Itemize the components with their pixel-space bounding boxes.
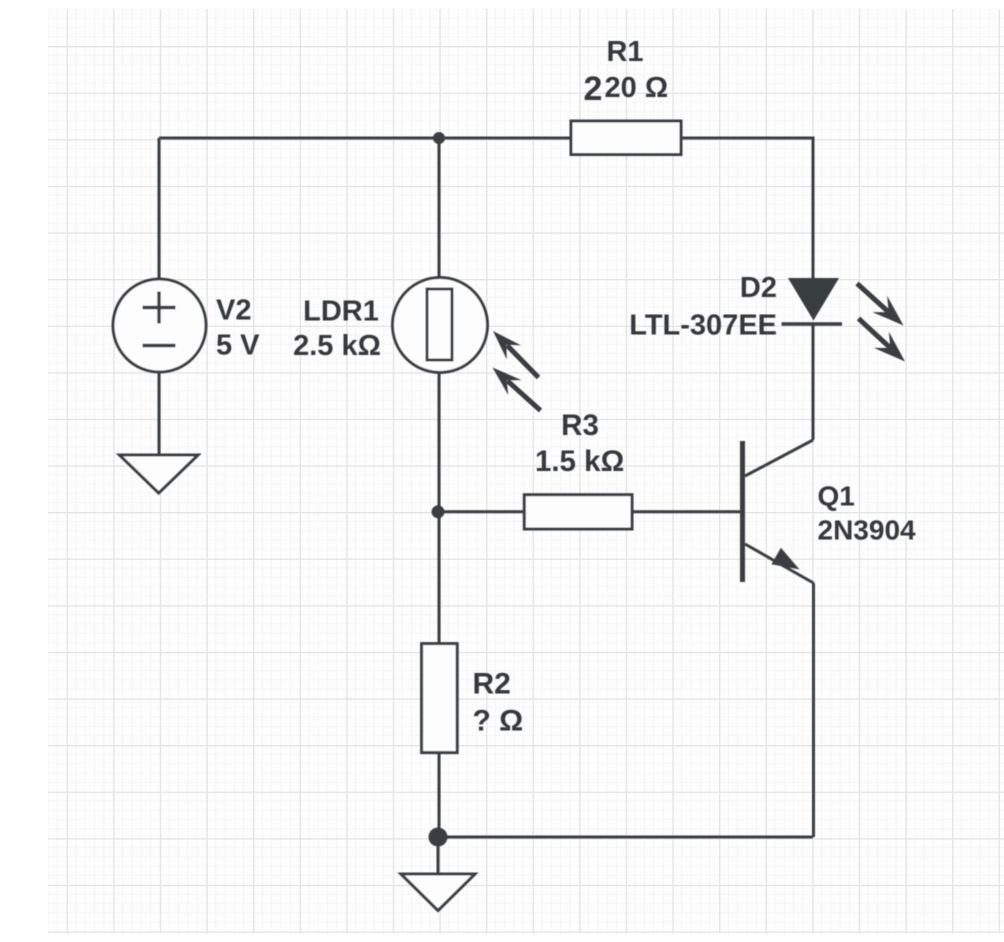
svg-text:D2: D2 — [740, 272, 777, 304]
resistor R1 — [571, 121, 681, 155]
wire: bottom rail — [438, 836, 813, 839]
photoresistor LDR1 — [393, 278, 488, 373]
wire: V2 top stem — [158, 138, 161, 279]
svg-text:1.5 kΩ: 1.5 kΩ — [535, 445, 624, 478]
label V2 5V — [216, 295, 260, 362]
LED D2 — [782, 278, 843, 324]
voltage source V2 — [113, 279, 206, 372]
svg-text:20 Ω: 20 Ω — [605, 72, 669, 104]
wire: R2 bottom to bottom node — [438, 753, 441, 830]
LDR1 light arrow upper — [493, 331, 539, 378]
svg-text:LDR1: LDR1 — [303, 296, 379, 328]
label D2 LTL-307EE — [629, 272, 777, 342]
resistor R3 — [524, 495, 632, 529]
node: top junction — [433, 132, 445, 144]
wire: V2 bottom stem to ground — [158, 372, 161, 455]
svg-text:R2: R2 — [473, 668, 511, 701]
svg-text:R3: R3 — [561, 409, 599, 442]
wire: base node to R3 — [438, 510, 524, 513]
wire: LDR top stem — [438, 138, 441, 278]
LDR1 light arrow lower — [493, 368, 541, 411]
wire: top rail right segment (R1 to right corner, down to LED) — [681, 138, 813, 278]
svg-text:2N3904: 2N3904 — [818, 514, 917, 545]
wire: Q1 emitter to bottom rail — [812, 583, 815, 837]
node: base junction — [432, 505, 445, 518]
resistor R2 — [422, 644, 458, 753]
label R3 1.5kOhm — [535, 409, 624, 478]
svg-text:LTL-307EE: LTL-307EE — [629, 310, 777, 342]
label R1 220 Ohm — [584, 36, 669, 108]
label R2 ?Ohm — [473, 668, 524, 738]
label Q1 2N3904 — [818, 481, 917, 546]
svg-text:? Ω: ? Ω — [473, 705, 524, 738]
svg-text:Q1: Q1 — [818, 481, 855, 512]
transistor Q1 — [743, 440, 814, 583]
svg-text:2: 2 — [584, 70, 603, 108]
wire: bottom node to ground — [437, 844, 440, 874]
ground (left, under V2) — [120, 455, 199, 493]
svg-text:R1: R1 — [606, 36, 643, 68]
D2 light arrow lower — [859, 319, 906, 362]
ground (bottom) — [401, 874, 475, 911]
wire: LDR bottom to R2 (through base node) — [438, 372, 441, 644]
svg-text:V2: V2 — [216, 295, 251, 327]
wire: LED cathode to Q1 collector — [812, 324, 815, 440]
wire: R3 to Q1 base — [632, 510, 741, 513]
node: bottom junction — [429, 828, 448, 847]
label LDR1 2.5kOhm — [293, 296, 381, 363]
wire: top rail left segment (V+ to R1) — [159, 137, 571, 140]
D2 light arrow upper — [857, 284, 904, 326]
svg-text:5 V: 5 V — [216, 330, 260, 362]
svg-text:2.5 kΩ: 2.5 kΩ — [293, 330, 381, 362]
